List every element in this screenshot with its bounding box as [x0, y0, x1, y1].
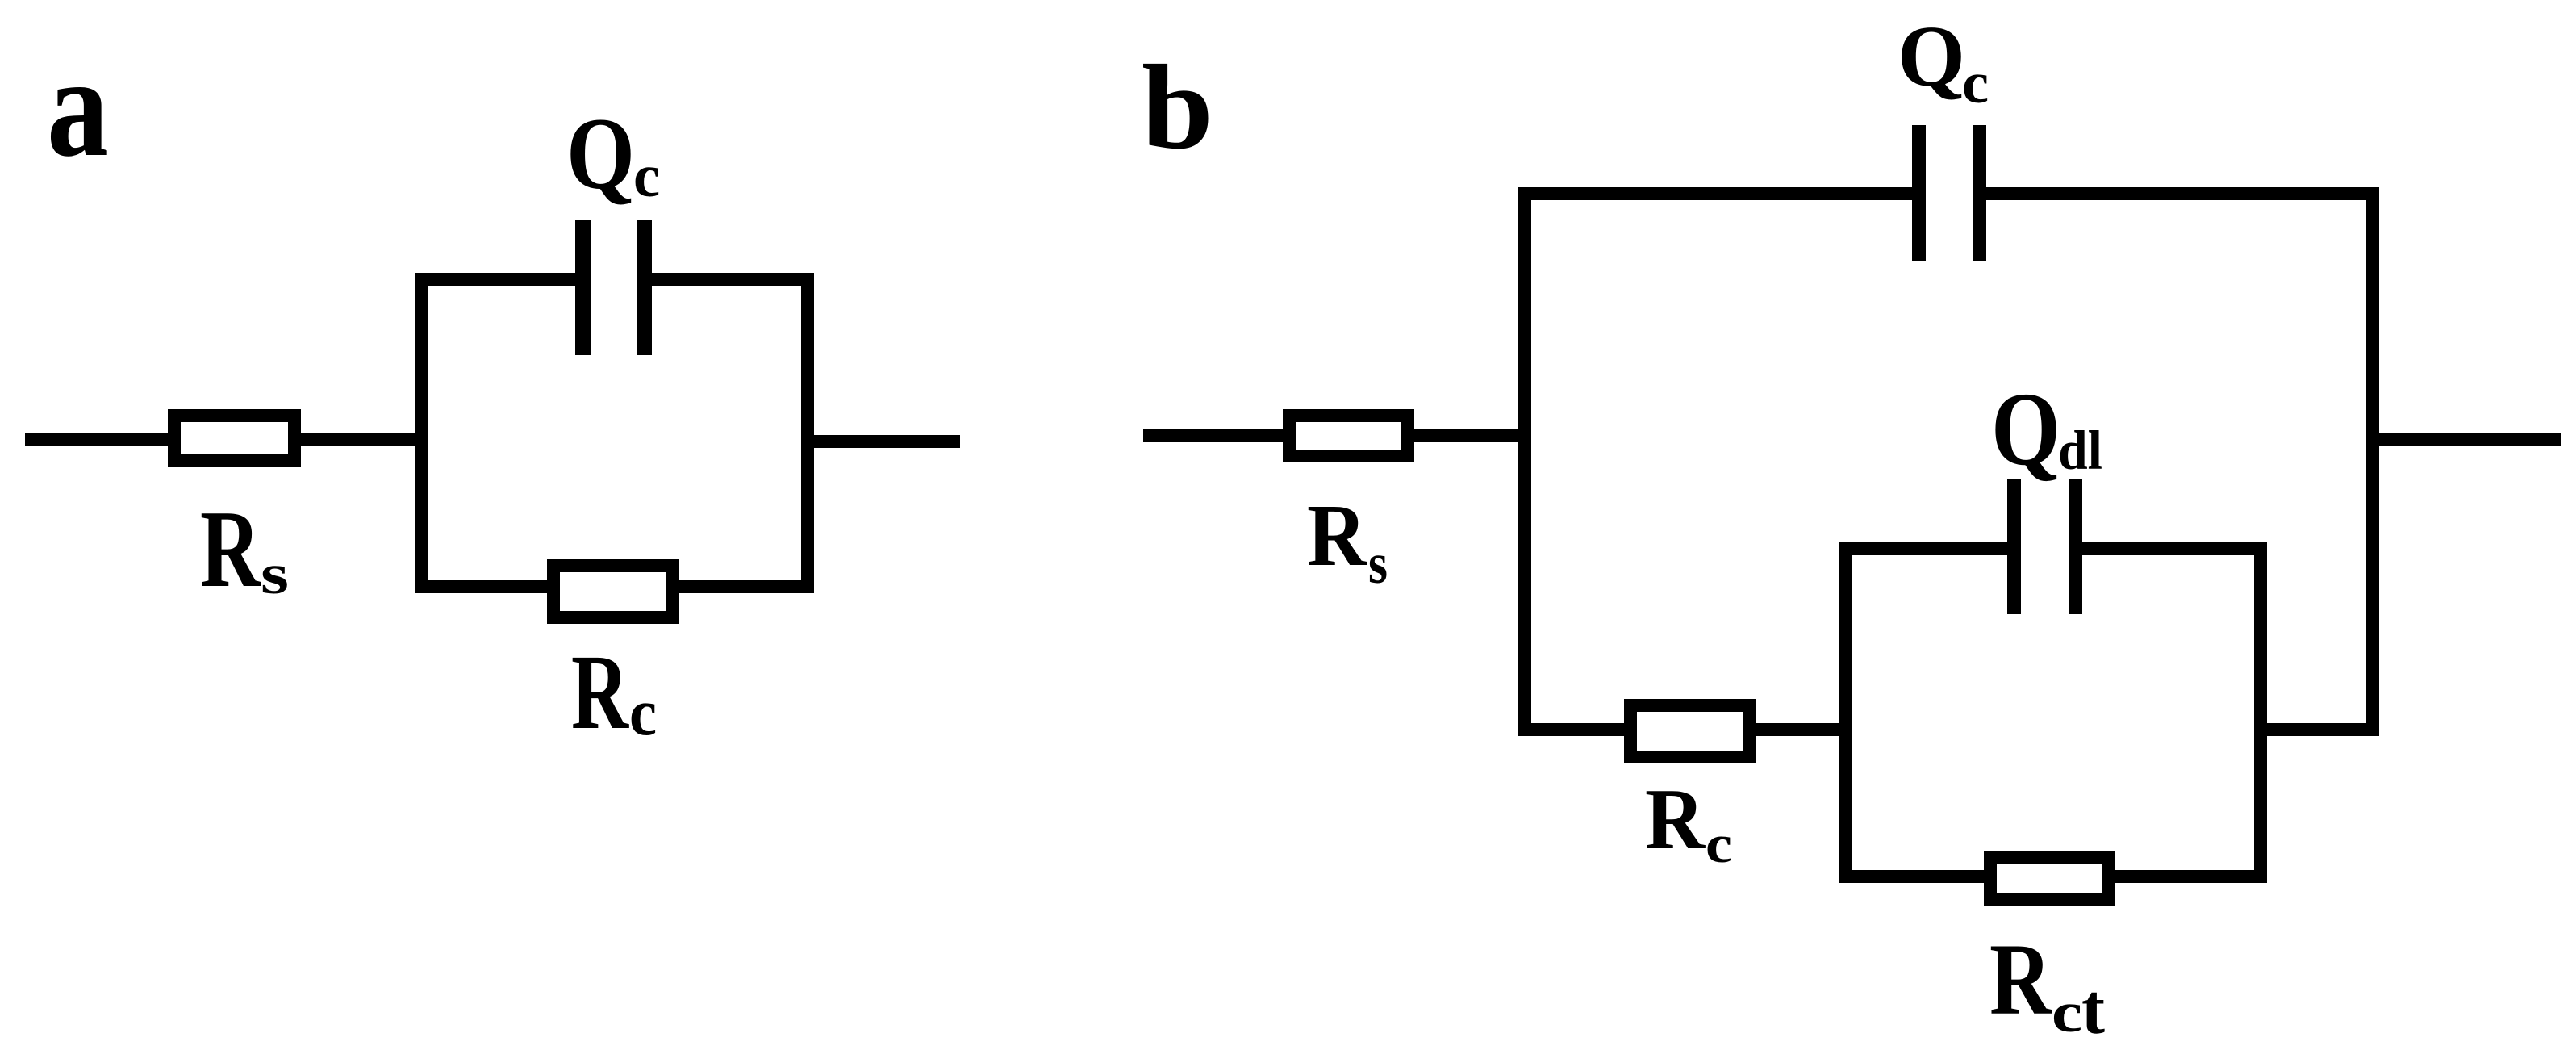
wire Rc to inner node (circuit b)	[1753, 723, 1852, 736]
wire left vertical branch (circuit a)	[415, 273, 428, 593]
svg-text:t: t	[2081, 970, 2105, 1049]
svg-text:c: c	[629, 675, 657, 749]
svg-text:s: s	[261, 543, 289, 606]
svg-text:c: c	[633, 143, 660, 210]
resistor Rc (circuit b)	[1630, 705, 1750, 757]
label Rc (circuit a)	[571, 632, 657, 751]
wire right vertical branch (circuit a)	[801, 273, 814, 593]
wire outer left vertical (circuit b)	[1518, 187, 1531, 736]
svg-text:s: s	[1368, 533, 1388, 596]
wire inner right vertical (circuit b)	[2254, 542, 2267, 883]
CPE Qc plates (circuit a)	[575, 220, 652, 355]
wire outer top branch left (circuit b)	[1518, 187, 1914, 200]
svg-text:Q: Q	[1898, 9, 1965, 105]
svg-text:Q: Q	[566, 98, 635, 211]
resistor Rs (circuit a)	[174, 416, 294, 461]
label Rct (circuit b)	[1989, 923, 2105, 1049]
svg-text:c: c	[1962, 50, 1989, 115]
svg-text:c: c	[1706, 814, 1732, 874]
svg-text:c: c	[2052, 981, 2082, 1044]
wire inner bottom branch left (circuit b)	[1839, 870, 1987, 883]
svg-text:R: R	[1989, 923, 2052, 1036]
label b	[1142, 40, 1213, 174]
wire bottom rail left (circuit b)	[1518, 723, 1627, 736]
wire top branch left (circuit a)	[415, 273, 578, 286]
label Rc (circuit b)	[1645, 772, 1732, 874]
resistor Rs (circuit b)	[1289, 416, 1408, 456]
label Qc (circuit a)	[566, 98, 660, 211]
label Rs (circuit a)	[200, 487, 289, 610]
svg-text:b: b	[1142, 40, 1213, 174]
wire outer top branch right (circuit b)	[1984, 187, 2379, 200]
wire inner top branch left (circuit b)	[1839, 542, 2010, 555]
label a	[47, 26, 109, 186]
svg-text:R: R	[571, 632, 629, 751]
wire outer right vertical (circuit b)	[2366, 187, 2379, 736]
wire bottom branch right (circuit a)	[676, 580, 814, 593]
wire input lead circuit a	[25, 433, 171, 446]
wire inner top branch right (circuit b)	[2080, 542, 2267, 555]
wire bottom branch left (circuit a)	[415, 580, 550, 593]
wire top branch right (circuit a)	[649, 273, 814, 286]
svg-text:R: R	[1645, 772, 1706, 868]
wire output lead circuit b	[2379, 433, 2561, 446]
label Rs (circuit b)	[1307, 486, 1388, 596]
wire Rs to node A	[301, 433, 428, 446]
wire input lead circuit b	[1143, 429, 1286, 442]
svg-text:Q: Q	[1991, 371, 2060, 487]
wire inner left vertical (circuit b)	[1839, 542, 1852, 883]
wire inner bottom branch right (circuit b)	[2112, 870, 2267, 883]
resistor Rc (circuit a)	[553, 566, 673, 617]
CPE Qc plates (circuit b)	[1912, 125, 1986, 261]
svg-text:R: R	[1307, 486, 1367, 584]
resistor Rct (circuit b)	[1990, 857, 2109, 900]
svg-text:R: R	[200, 487, 262, 610]
label Qdl (circuit b)	[1991, 371, 2102, 487]
svg-text:dl: dl	[2058, 420, 2102, 481]
wire Rs to node B	[1414, 429, 1531, 442]
CPE Qdl plates (circuit b)	[2007, 479, 2082, 614]
wire inner to outer connector (circuit b)	[2267, 723, 2379, 736]
wire output lead circuit a	[808, 435, 960, 448]
label Qc (circuit b)	[1898, 9, 1989, 115]
svg-text:a: a	[47, 26, 109, 186]
